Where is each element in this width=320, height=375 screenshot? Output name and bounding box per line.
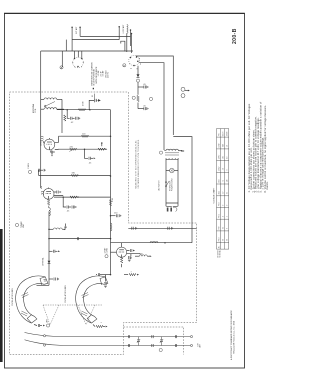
svg-text:.05: .05 xyxy=(89,163,93,165)
svg-text:.5: .5 xyxy=(227,216,229,217)
wire xyxy=(57,98,62,100)
antenna transformer T1 xyxy=(32,98,64,133)
filter choke xyxy=(111,223,112,231)
detector cap to ground xyxy=(38,169,46,176)
output tube V4 xyxy=(41,186,111,216)
svg-text:0 AV: 0 AV xyxy=(222,144,225,147)
wire xyxy=(136,56,173,135)
AC plug xyxy=(166,203,178,212)
wire xyxy=(41,98,44,100)
box left edge / coil feed line xyxy=(40,51,42,188)
B+ terminal arrow xyxy=(180,150,185,152)
paddle top xyxy=(40,277,48,285)
oscillator cathode line xyxy=(37,211,111,285)
crystal diode xyxy=(48,261,51,264)
svg-text:140: 140 xyxy=(227,180,229,183)
svg-text:0: 0 xyxy=(227,205,229,206)
svg-text:117: 117 xyxy=(223,191,225,193)
svg-text:35Z5: 35Z5 xyxy=(219,191,221,194)
svg-text:LOOP ANT: LOOP ANT xyxy=(122,24,125,34)
B+ rail vertical xyxy=(109,110,121,276)
padder cap xyxy=(105,275,107,282)
paddle bottom xyxy=(87,314,97,323)
paddle top xyxy=(100,277,108,285)
svg-text:VOLTS: VOLTS xyxy=(223,132,225,137)
wire from top paddle xyxy=(96,274,97,276)
volume control xyxy=(98,148,105,150)
wire xyxy=(61,99,63,133)
osc feedback resistor xyxy=(124,271,139,276)
wire xyxy=(130,36,132,46)
wires xyxy=(164,149,166,152)
wire xyxy=(65,40,67,51)
tuning arc L2 xyxy=(64,273,111,323)
svg-text:95: 95 xyxy=(227,192,229,194)
bypass cap xyxy=(138,108,144,110)
socket index A xyxy=(60,66,63,70)
svg-text:PIN 7: PIN 7 xyxy=(219,226,221,230)
branch cap xyxy=(49,250,53,252)
page number 200-B xyxy=(232,28,238,44)
svg-text:©Howard W. Sams & Co., Inc. 1: ©Howard W. Sams & Co., Inc. 1950 xyxy=(233,320,236,354)
svg-text:-8: -8 xyxy=(223,216,225,217)
left grid wire xyxy=(111,251,117,253)
svg-text:.05: .05 xyxy=(143,106,147,108)
resistor xyxy=(79,109,86,111)
secondary coil xyxy=(44,108,57,110)
svg-text:.05: .05 xyxy=(143,84,147,86)
tuning arrow xyxy=(45,102,56,107)
hatch marks xyxy=(82,293,89,298)
wire xyxy=(55,148,58,150)
note text block (resistor on chassis) xyxy=(91,62,105,86)
gang condenser dashed box xyxy=(124,327,184,355)
AVC line wire xyxy=(57,88,111,124)
svg-text:12SK7: 12SK7 xyxy=(41,140,43,146)
slug resistor from arc2 xyxy=(93,321,108,328)
wire xyxy=(41,108,44,110)
svg-text:ANT: ANT xyxy=(46,318,49,322)
svg-text:6. Volume control at maximum,: 6. Volume control at maximum, no signal … xyxy=(264,105,267,193)
svg-text:OSCILLATOR LINES: OSCILLATOR LINES xyxy=(64,284,67,303)
svg-text:0: 0 xyxy=(227,228,229,229)
IF amp tube V3 xyxy=(41,136,59,156)
tube pins xyxy=(74,51,76,58)
svg-text:.05: .05 xyxy=(67,211,71,213)
on-off switch xyxy=(158,178,174,191)
tuning arc L1 xyxy=(11,276,48,323)
wire xyxy=(137,82,139,95)
svg-text:330: 330 xyxy=(72,173,76,175)
gang condenser section caps xyxy=(128,335,177,352)
terminal dots xyxy=(71,27,73,29)
wire xyxy=(139,63,164,150)
bypass cap xyxy=(138,86,144,88)
grid cap symbols xyxy=(57,191,59,194)
svg-text:60: 60 xyxy=(227,239,229,241)
svg-text:.02: .02 xyxy=(71,122,75,124)
phono jacks xyxy=(181,87,190,97)
svg-text:PIN: PIN xyxy=(219,133,221,135)
svg-text:VOLTAGES MEASURED WITH VTVM TO: VOLTAGES MEASURED WITH VTVM TO B MINUS xyxy=(137,139,140,188)
svg-text:470K: 470K xyxy=(83,101,85,106)
long note beside power section xyxy=(135,139,140,188)
power transformer T2 xyxy=(159,149,182,203)
node xyxy=(131,33,133,35)
top edge darker scan line xyxy=(4,12,245,14)
diode return wire row xyxy=(39,173,112,177)
svg-text:PIN 8: PIN 8 xyxy=(219,237,221,241)
cathode xyxy=(120,257,122,263)
svg-text:1: 1 xyxy=(131,271,133,273)
svg-text:PIN 5: PIN 5 xyxy=(219,214,221,218)
stub labels top xyxy=(75,26,78,34)
wire xyxy=(79,27,81,36)
grid xyxy=(47,143,53,145)
wire xyxy=(71,27,73,51)
svg-text:-1.0: -1.0 xyxy=(223,168,225,171)
hatch marks xyxy=(22,293,29,298)
svg-text:PIN 2: PIN 2 xyxy=(219,202,221,206)
svg-text:1: 1 xyxy=(101,321,103,323)
resistor R division xyxy=(137,96,139,102)
antenna terminal from arc1 xyxy=(34,318,50,327)
paddle bottom xyxy=(27,314,37,323)
svg-text:AC SWITCH: AC SWITCH xyxy=(158,180,161,191)
svg-text:OHMS: OHMS xyxy=(227,132,229,136)
cathode network xyxy=(50,150,55,152)
stub xyxy=(41,186,43,189)
AVC-grid wire row xyxy=(58,142,107,164)
wire row xyxy=(48,238,50,240)
chassis dashed outline xyxy=(10,92,197,355)
plate wire xyxy=(55,136,59,142)
svg-text:300: 300 xyxy=(140,254,143,256)
wire xyxy=(131,34,133,54)
svg-text:8.0: 8.0 xyxy=(227,157,229,159)
svg-text:100: 100 xyxy=(82,133,86,135)
svg-text:OSCILLATOR LINES: OSCILLATOR LINES xyxy=(11,287,14,306)
dial mechanism dashed links xyxy=(43,305,102,325)
coil xyxy=(41,191,44,194)
label xyxy=(104,247,109,253)
return to ground xyxy=(37,284,50,286)
socket index D xyxy=(15,221,25,228)
label xyxy=(32,103,37,113)
plate wire xyxy=(54,192,63,196)
wire xyxy=(126,33,128,52)
coupling cap branch xyxy=(85,149,89,158)
label xyxy=(11,287,14,306)
label xyxy=(41,140,43,146)
svg-text:CONV: CONV xyxy=(107,247,109,253)
wire to B+ drop xyxy=(173,137,192,243)
svg-text:200-B: 200-B xyxy=(232,28,238,44)
primary coil xyxy=(44,98,57,100)
trimmer branch xyxy=(89,100,94,109)
svg-text:7.5: 7.5 xyxy=(223,180,225,182)
main solid box top (RF section) xyxy=(41,50,133,52)
svg-text:UNIT: UNIT xyxy=(23,223,25,228)
dial cord curves to gang xyxy=(25,333,202,348)
ground stub mid xyxy=(64,224,67,229)
screen bypass row under dashed edge xyxy=(128,227,196,230)
socket index B xyxy=(123,64,126,68)
screen bypass xyxy=(63,197,66,207)
svg-text:VOLTAGE CHART: VOLTAGE CHART xyxy=(213,187,216,203)
tap coil xyxy=(48,229,50,231)
coil xyxy=(41,136,44,141)
svg-text:CRYSTAL: CRYSTAL xyxy=(42,257,45,266)
svg-text:COIL: COIL xyxy=(35,109,37,113)
table footnote xyxy=(217,250,222,258)
dropping resistor xyxy=(109,200,111,206)
svg-text:12SQ7: 12SQ7 xyxy=(219,166,221,171)
pilot lamp xyxy=(166,168,178,203)
antenna coil xyxy=(127,25,128,34)
svg-text:B: B xyxy=(123,65,125,67)
tube V1 dashed envelope xyxy=(72,51,83,68)
svg-text:12SA7: 12SA7 xyxy=(218,143,221,148)
svg-text:100: 100 xyxy=(223,156,225,159)
socket index C xyxy=(136,79,139,82)
wire stub x62 xyxy=(61,51,63,67)
svg-text:12SK7: 12SK7 xyxy=(219,155,221,160)
table title xyxy=(213,187,216,203)
page border frame xyxy=(5,14,245,369)
svg-text:05: 05 xyxy=(92,95,94,97)
diode CR1 xyxy=(137,74,140,77)
right side xyxy=(127,251,140,254)
converter tube V5 xyxy=(104,243,141,268)
svg-text:90: 90 xyxy=(223,239,225,241)
screen wire row xyxy=(59,133,112,137)
svg-text:2.2K: 2.2K xyxy=(112,197,114,202)
socket index with label 6SB7 xyxy=(28,163,32,174)
svg-text:1 MEG: 1 MEG xyxy=(28,163,30,169)
wire xyxy=(137,66,139,75)
grid leak row xyxy=(128,254,152,262)
wire xyxy=(57,108,64,110)
wire xyxy=(72,39,119,41)
antenna loop leads xyxy=(121,25,132,54)
tube V2 dashed envelope xyxy=(129,55,141,69)
svg-text:AT SOCKET: AT SOCKET xyxy=(217,250,220,258)
cathode xyxy=(47,199,49,205)
svg-text:ALL: ALL xyxy=(218,246,221,249)
svg-text:1.0: 1.0 xyxy=(227,145,229,147)
long wire to output transformer row xyxy=(111,241,193,243)
svg-text:POWER CORD: POWER CORD xyxy=(172,178,174,191)
wire xyxy=(137,103,139,109)
notes list right margin xyxy=(248,101,269,192)
tube voltage chart table xyxy=(217,129,229,250)
cap leg xyxy=(67,110,69,119)
AC rail upper xyxy=(136,56,192,243)
wire xyxy=(80,35,130,37)
wire to rail xyxy=(54,196,111,198)
svg-text:3-6 AF: 3-6 AF xyxy=(102,70,105,77)
label xyxy=(64,284,67,303)
wire xyxy=(118,27,120,40)
table cell entries xyxy=(218,132,229,249)
svg-text:EXT ANT: EXT ANT xyxy=(75,26,78,34)
left edge black scan strip xyxy=(0,229,3,362)
wire corner box xyxy=(121,41,125,51)
svg-text:ments.: ments. xyxy=(266,181,269,190)
branch cap xyxy=(110,215,112,217)
svg-text:220: 220 xyxy=(70,146,74,148)
small comp at left edge xyxy=(64,115,66,121)
filament bus wires top xyxy=(66,26,131,51)
svg-text:150: 150 xyxy=(114,213,118,215)
svg-text:0: 0 xyxy=(227,169,229,170)
rectifier diode string xyxy=(132,66,153,110)
svg-text:0: 0 xyxy=(223,205,225,206)
trimmers xyxy=(137,337,163,346)
svg-text:455 KC: 455 KC xyxy=(108,71,110,78)
svg-text:6.3: 6.3 xyxy=(223,227,225,229)
trimmer on paddle xyxy=(44,280,47,282)
credit line xyxy=(230,310,236,360)
svg-text:50L6: 50L6 xyxy=(219,179,221,182)
